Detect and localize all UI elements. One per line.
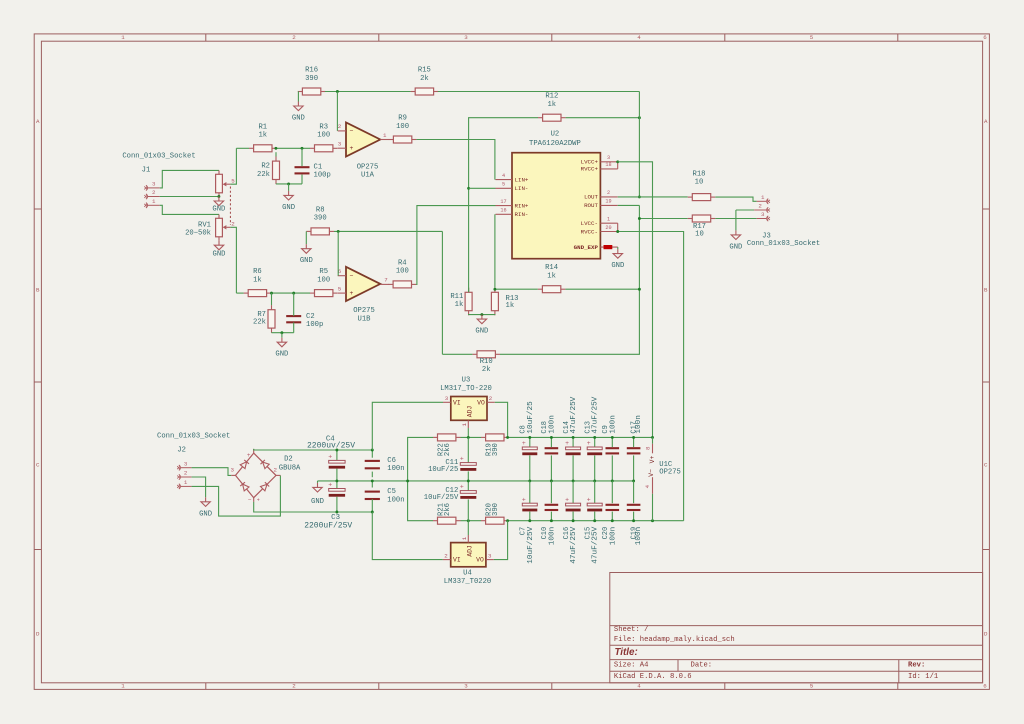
svg-text:2: 2	[231, 221, 235, 228]
svg-text:2: 2	[152, 189, 156, 196]
svg-text:390: 390	[492, 503, 500, 516]
svg-text:LVCC+: LVCC+	[581, 159, 599, 166]
svg-text:100: 100	[317, 276, 330, 284]
svg-text:B: B	[984, 287, 988, 294]
svg-text:J1: J1	[142, 167, 151, 175]
svg-text:J2: J2	[177, 446, 186, 454]
svg-text:U4: U4	[463, 570, 472, 578]
svg-text:Title:: Title:	[615, 647, 638, 658]
svg-text:100n: 100n	[635, 415, 643, 433]
svg-text:−: −	[350, 128, 354, 135]
svg-text:GND: GND	[282, 204, 295, 212]
svg-text:47uF/25V: 47uF/25V	[592, 396, 600, 433]
svg-text:100p: 100p	[314, 172, 331, 180]
svg-text:+: +	[460, 484, 464, 491]
svg-text:U2: U2	[551, 131, 560, 139]
svg-text:R18: R18	[693, 170, 706, 178]
svg-text:17: 17	[500, 199, 506, 205]
svg-text:GND: GND	[275, 351, 288, 359]
svg-text:2: 2	[489, 395, 493, 402]
svg-text:2k: 2k	[482, 366, 491, 374]
svg-text:+: +	[587, 440, 591, 447]
svg-text:100n: 100n	[609, 415, 617, 433]
svg-text:GND_EXP: GND_EXP	[574, 244, 599, 251]
svg-text:2200uv/25V: 2200uv/25V	[307, 442, 355, 451]
svg-text:+: +	[328, 454, 332, 461]
svg-text:D2: D2	[284, 456, 293, 464]
svg-text:+: +	[460, 456, 464, 463]
svg-text:1: 1	[461, 536, 468, 540]
svg-text:GND: GND	[292, 115, 305, 123]
svg-text:100n: 100n	[387, 465, 404, 473]
svg-text:1k: 1k	[506, 302, 515, 310]
svg-text:+: +	[247, 452, 251, 459]
svg-text:OP275: OP275	[353, 307, 375, 315]
svg-text:C1: C1	[314, 163, 323, 171]
svg-text:1k: 1k	[253, 276, 262, 284]
svg-text:C: C	[36, 462, 40, 469]
svg-text:4: 4	[502, 173, 505, 179]
svg-text:+: +	[350, 145, 354, 152]
svg-text:U3: U3	[462, 376, 471, 384]
svg-text:+: +	[587, 496, 591, 503]
svg-text:R2: R2	[261, 163, 270, 171]
svg-text:+: +	[565, 496, 569, 503]
svg-text:5: 5	[338, 285, 342, 292]
svg-text:100: 100	[317, 132, 330, 140]
svg-text:LM317_TO-220: LM317_TO-220	[440, 385, 492, 393]
svg-text:+: +	[522, 496, 526, 503]
svg-text:3: 3	[230, 467, 234, 474]
svg-text:5: 5	[502, 182, 505, 188]
svg-text:16: 16	[500, 208, 506, 214]
svg-text:1: 1	[383, 132, 387, 139]
svg-text:C3: C3	[331, 514, 340, 522]
svg-text:100n: 100n	[609, 527, 617, 545]
svg-text:100n: 100n	[548, 415, 556, 433]
svg-text:20: 20	[605, 225, 611, 231]
svg-text:5: 5	[231, 178, 235, 185]
svg-text:3: 3	[464, 683, 468, 690]
svg-text:4: 4	[637, 683, 641, 690]
svg-text:1k: 1k	[258, 132, 267, 140]
svg-text:2: 2	[338, 123, 342, 130]
svg-text:Date:: Date:	[691, 662, 713, 670]
svg-text:2: 2	[292, 683, 296, 690]
svg-text:Conn_01x03_Socket: Conn_01x03_Socket	[122, 153, 195, 161]
svg-text:5: 5	[810, 34, 814, 41]
svg-text:LVCC-: LVCC-	[581, 220, 598, 227]
svg-text:10: 10	[695, 179, 704, 187]
svg-text:LM337_T0220: LM337_T0220	[444, 578, 491, 586]
svg-text:6: 6	[983, 34, 987, 41]
svg-text:GND: GND	[213, 251, 226, 259]
svg-text:390: 390	[305, 75, 318, 83]
svg-text:A: A	[984, 118, 988, 125]
svg-text:1: 1	[121, 34, 125, 41]
svg-text:GBU8A: GBU8A	[279, 464, 301, 472]
svg-text:R1: R1	[258, 123, 267, 131]
svg-text:RVCC-: RVCC-	[581, 228, 598, 235]
svg-text:1k: 1k	[547, 273, 556, 281]
svg-text:100n: 100n	[548, 527, 556, 545]
svg-text:8: 8	[644, 446, 651, 450]
svg-text:R10: R10	[480, 358, 493, 366]
svg-text:C2: C2	[306, 313, 315, 321]
svg-text:3: 3	[464, 34, 468, 41]
svg-text:R15: R15	[418, 67, 431, 75]
svg-text:LIN-: LIN-	[515, 185, 529, 192]
svg-text:7: 7	[384, 276, 388, 283]
svg-text:2k6: 2k6	[444, 443, 452, 456]
svg-text:22k: 22k	[253, 319, 266, 327]
svg-text:100p: 100p	[306, 321, 323, 329]
svg-text:10uF/25V: 10uF/25V	[527, 526, 535, 563]
svg-text:6: 6	[983, 683, 987, 690]
svg-text:C6: C6	[387, 457, 396, 465]
svg-text:Rev:: Rev:	[908, 662, 925, 670]
svg-text:10uF/25V: 10uF/25V	[424, 494, 459, 502]
svg-text:1: 1	[121, 683, 125, 690]
svg-text:GND: GND	[311, 498, 324, 506]
svg-text:3: 3	[761, 211, 765, 218]
svg-text:U1B: U1B	[358, 315, 372, 323]
svg-text:GND: GND	[729, 243, 742, 251]
svg-text:1: 1	[761, 194, 765, 201]
svg-text:2: 2	[292, 34, 296, 41]
svg-text:Size: A4: Size: A4	[614, 662, 649, 670]
svg-text:ROUT: ROUT	[584, 202, 598, 209]
svg-text:2k: 2k	[420, 75, 429, 83]
svg-text:390: 390	[314, 215, 327, 223]
svg-text:A: A	[36, 118, 40, 125]
svg-text:RVCC+: RVCC+	[581, 166, 599, 173]
svg-text:4: 4	[644, 484, 651, 488]
svg-text:KiCad E.D.A. 8.0.6: KiCad E.D.A. 8.0.6	[614, 673, 692, 681]
svg-text:D: D	[984, 631, 988, 638]
svg-text:+: +	[522, 440, 526, 447]
svg-text:Id: 1/1: Id: 1/1	[908, 673, 938, 681]
svg-text:LIN+: LIN+	[515, 176, 529, 183]
svg-text:B: B	[36, 287, 40, 294]
svg-text:1: 1	[461, 423, 468, 427]
svg-text:VI: VI	[453, 557, 461, 564]
svg-text:OP275: OP275	[659, 469, 681, 477]
svg-text:10uF/25: 10uF/25	[428, 466, 458, 474]
svg-text:ADJ: ADJ	[467, 545, 474, 557]
svg-text:GND: GND	[212, 206, 225, 214]
svg-text:R9: R9	[398, 115, 407, 123]
svg-text:1k: 1k	[547, 101, 556, 109]
svg-text:22k: 22k	[257, 171, 270, 179]
svg-text:R6: R6	[253, 268, 262, 276]
svg-text:LOUT: LOUT	[584, 194, 598, 201]
svg-text:4: 4	[637, 34, 641, 41]
svg-text:R12: R12	[545, 93, 558, 101]
svg-text:3: 3	[338, 141, 342, 148]
svg-text:ADJ: ADJ	[467, 406, 474, 418]
svg-text:VI: VI	[453, 399, 461, 406]
svg-text:100: 100	[396, 123, 409, 131]
svg-text:10: 10	[695, 230, 704, 238]
svg-text:100: 100	[396, 268, 409, 276]
svg-text:V−: V−	[648, 469, 655, 477]
svg-text:D: D	[36, 631, 40, 638]
svg-text:VO: VO	[476, 557, 484, 564]
svg-text:R8: R8	[316, 206, 325, 214]
svg-text:2: 2	[444, 553, 448, 560]
svg-text:18: 18	[605, 162, 611, 168]
svg-text:U1A: U1A	[361, 172, 375, 180]
svg-text:Sheet: /: Sheet: /	[614, 626, 649, 634]
svg-text:R5: R5	[319, 268, 328, 276]
svg-text:10uF/25: 10uF/25	[527, 401, 535, 434]
svg-text:3: 3	[445, 395, 449, 402]
svg-text:19: 19	[605, 199, 611, 205]
svg-text:2200uF/25V: 2200uF/25V	[304, 522, 352, 531]
svg-text:1: 1	[184, 479, 188, 486]
svg-text:5: 5	[810, 683, 814, 690]
svg-text:Conn_01x03_Socket: Conn_01x03_Socket	[157, 433, 230, 441]
svg-text:R4: R4	[398, 259, 407, 267]
svg-text:OP275: OP275	[357, 163, 379, 171]
svg-text:20−50k: 20−50k	[185, 229, 211, 237]
svg-text:R14: R14	[545, 264, 558, 272]
svg-text:+: +	[565, 440, 569, 447]
svg-text:−: −	[350, 273, 354, 280]
svg-text:3: 3	[152, 181, 156, 188]
svg-text:100n: 100n	[387, 496, 404, 504]
svg-text:+: +	[350, 290, 354, 297]
svg-text:3: 3	[607, 155, 610, 161]
svg-text:1: 1	[152, 198, 156, 205]
svg-text:+: +	[257, 497, 260, 503]
svg-text:RIN-: RIN-	[515, 211, 529, 218]
svg-text:47uF/25V: 47uF/25V	[570, 526, 578, 563]
svg-text:−: −	[248, 497, 252, 504]
svg-text:GND: GND	[611, 262, 624, 270]
svg-text:1k: 1k	[455, 301, 464, 309]
svg-text:V+: V+	[649, 456, 656, 464]
svg-text:100n: 100n	[635, 527, 643, 545]
svg-text:RIN+: RIN+	[515, 202, 529, 209]
svg-text:47uF/25V: 47uF/25V	[592, 526, 600, 563]
svg-text:GND: GND	[475, 328, 488, 336]
svg-text:1: 1	[607, 217, 610, 223]
svg-text:VO: VO	[477, 399, 485, 406]
svg-text:3: 3	[488, 553, 492, 560]
svg-text:2: 2	[758, 203, 762, 210]
svg-text:GND: GND	[300, 257, 313, 265]
svg-text:C: C	[984, 462, 988, 469]
svg-text:File: headamp_maly.kicad_sch: File: headamp_maly.kicad_sch	[614, 636, 735, 644]
svg-text:GND: GND	[199, 510, 212, 518]
svg-text:R16: R16	[305, 67, 318, 75]
svg-text:390: 390	[492, 443, 500, 456]
svg-text:2k6: 2k6	[444, 503, 452, 516]
svg-text:2: 2	[184, 470, 188, 477]
svg-text:+: +	[328, 482, 332, 489]
svg-text:TPA6120A2DWP: TPA6120A2DWP	[529, 140, 581, 148]
svg-text:R3: R3	[319, 123, 328, 131]
svg-text:47uF/25V: 47uF/25V	[570, 396, 578, 433]
svg-text:2: 2	[607, 190, 610, 196]
svg-text:C5: C5	[387, 488, 396, 496]
svg-text:R11: R11	[450, 293, 463, 301]
svg-text:3: 3	[184, 460, 188, 467]
svg-text:2: 2	[273, 467, 277, 474]
svg-text:Conn_01x03_Socket: Conn_01x03_Socket	[747, 240, 820, 248]
